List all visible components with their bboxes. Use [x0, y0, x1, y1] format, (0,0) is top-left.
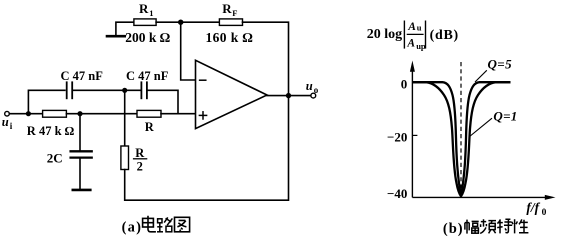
svg-text:C 47 nF: C 47 nF [126, 69, 169, 83]
caption char fu [465, 220, 479, 234]
svg-text:A: A [406, 38, 415, 50]
svg-text:A: A [407, 21, 416, 33]
node input junction [26, 111, 31, 116]
svg-text:Q=5: Q=5 [488, 57, 513, 72]
y axis title: 20 log |Au/Aup| (dB) [367, 21, 459, 51]
svg-text:2C: 2C [47, 150, 63, 165]
caption char te [497, 219, 512, 233]
svg-text:(b): (b) [443, 221, 464, 237]
svg-text:200 k Ω: 200 k Ω [125, 30, 171, 45]
svg-text:F: F [232, 8, 237, 18]
svg-text:u: u [2, 115, 9, 129]
svg-text:(a): (a) [122, 220, 143, 236]
ground (R1 left end) [107, 22, 134, 36]
svg-text:−20: −20 [387, 130, 407, 145]
value label R1 [139, 1, 153, 18]
graph: -20 tick [412, 134, 417, 136]
node output junction [286, 93, 291, 98]
svg-text:R: R [135, 146, 145, 160]
svg-text:160 k Ω: 160 k Ω [206, 30, 254, 45]
svg-text:Q=1: Q=1 [493, 109, 517, 124]
caption char pin [480, 219, 496, 233]
svg-text:f/f: f/f [526, 200, 540, 215]
resistor R 47k [43, 110, 67, 117]
graph: y axis [411, 70, 413, 197]
svg-text:up: up [416, 41, 426, 51]
wire output [267, 95, 311, 97]
resistor R/2 branch [124, 90, 126, 146]
caption char lu [157, 217, 172, 231]
ground (2C) [73, 189, 91, 192]
svg-text:0: 0 [542, 208, 547, 218]
value label R/2 fraction [133, 146, 147, 173]
input terminal ui [5, 111, 10, 116]
svg-text:R 47 k Ω: R 47 k Ω [27, 124, 75, 138]
svg-text:R: R [222, 1, 232, 16]
svg-text:u: u [417, 23, 422, 33]
svg-text:u: u [306, 79, 313, 93]
wire C2 to R row elbow [148, 90, 178, 113]
op-amp plus sign [199, 112, 206, 119]
capacitor C1 [67, 82, 73, 98]
leader line Q=5 [475, 70, 487, 82]
node capacitor midpoint [122, 88, 127, 93]
svg-text:(dB): (dB) [430, 28, 459, 43]
caption char xing [512, 219, 529, 233]
svg-text:20 log: 20 log [367, 27, 402, 42]
graph: dashed line at f0 [460, 62, 462, 197]
svg-text:1: 1 [149, 8, 153, 18]
svg-text:2: 2 [137, 160, 143, 174]
graph: x axis [412, 196, 546, 198]
output terminal uo [311, 93, 316, 98]
wire bottom rail to output [125, 96, 289, 201]
capacitor C2 [141, 82, 147, 98]
label ui [2, 115, 13, 131]
resistor RF [219, 19, 242, 26]
resistor R1 [134, 19, 156, 26]
caption char dian [143, 216, 156, 232]
node R midpoint [77, 111, 82, 116]
leader line Q=1 [470, 118, 492, 136]
axis label f/f0 [526, 200, 546, 218]
caption char tu [175, 217, 190, 232]
svg-text:0: 0 [401, 76, 408, 91]
op-amp minus sign [200, 79, 206, 81]
label uo [306, 79, 319, 95]
wire feedback to inverting input [181, 22, 196, 80]
svg-text:R: R [145, 120, 155, 134]
svg-text:R: R [139, 1, 149, 16]
wire R row [66, 113, 137, 115]
svg-text:−40: −40 [387, 186, 407, 201]
node feedback junction [178, 20, 183, 25]
op-amp U1 [196, 60, 268, 128]
wire RF to output column [243, 22, 289, 95]
svg-text:o: o [314, 85, 319, 95]
value label RF [222, 1, 237, 18]
wire riser to capacitor row [28, 90, 65, 113]
curve Q=1 [413, 82, 511, 196]
curve Q=5 [413, 82, 511, 196]
wire to non-inverting input [161, 113, 196, 115]
svg-text:C 47 nF: C 47 nF [61, 69, 104, 83]
wire input [9, 113, 42, 115]
capacitor 2C branch [79, 114, 81, 151]
wire R1 to RF [156, 21, 219, 23]
wire C1 to C2 [73, 89, 140, 91]
resistor R (second) [137, 110, 161, 117]
